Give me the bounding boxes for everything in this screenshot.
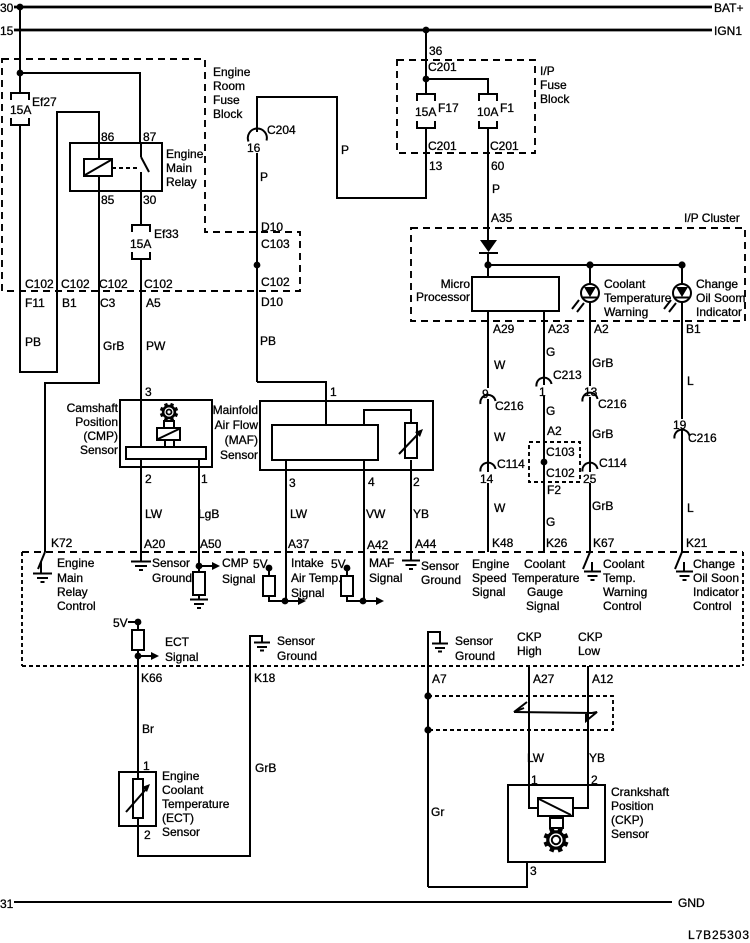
svg-text:2: 2 — [144, 828, 151, 842]
svg-text:Room: Room — [213, 79, 245, 93]
svg-text:19: 19 — [673, 418, 687, 432]
svg-text:Signal: Signal — [291, 586, 324, 600]
svg-text:PW: PW — [146, 339, 166, 353]
svg-text:Sensor: Sensor — [455, 634, 493, 648]
label I/P Fuse Block — [540, 64, 570, 106]
wire from rail 30 down to Ef27 — [19, 7, 21, 93]
svg-text:87: 87 — [143, 130, 157, 144]
svg-text:A29: A29 — [493, 322, 515, 336]
svg-text:A5: A5 — [146, 296, 161, 310]
svg-text:Ground: Ground — [421, 573, 461, 587]
label Sensor Ground — [152, 556, 192, 585]
svg-text:F17: F17 — [438, 101, 459, 115]
svg-text:Control: Control — [603, 599, 642, 613]
svg-text:Signal: Signal — [472, 585, 505, 599]
wire ECT pin 2 loop to K18 — [138, 666, 250, 856]
label CKP Low — [578, 630, 603, 658]
wire B1 to K21 — [681, 302, 683, 552]
wire bus to microprocessor — [487, 265, 489, 277]
svg-text:36: 36 — [429, 44, 443, 58]
svg-text:C102: C102 — [261, 275, 290, 289]
svg-text:Engine: Engine — [472, 557, 510, 571]
svg-text:Warning: Warning — [604, 305, 648, 319]
svg-text:D10: D10 — [261, 220, 283, 234]
svg-text:Signal: Signal — [369, 571, 402, 585]
svg-text:A7: A7 — [432, 672, 447, 686]
svg-text:L7B25303: L7B25303 — [688, 928, 749, 942]
svg-text:4: 4 — [368, 475, 375, 489]
svg-text:K72: K72 — [51, 536, 73, 550]
svg-text:Sensor: Sensor — [277, 634, 315, 648]
CKP gear icon — [544, 828, 567, 851]
svg-text:A2: A2 — [594, 322, 609, 336]
label Camshaft Position (CMP) Sensor — [67, 401, 119, 457]
fuse Ef33 15A — [130, 225, 179, 259]
svg-text:K67: K67 — [593, 536, 615, 550]
label Mainfold Air Flow (MAF) Sensor — [213, 403, 259, 462]
I/P Fuse Block dashed boundary — [397, 60, 535, 153]
svg-text:D10: D10 — [261, 295, 283, 309]
node C103/C102 junction — [541, 459, 548, 466]
wire branch to relay pin 87 — [20, 73, 140, 143]
pin 2 wire to A20 — [140, 459, 142, 561]
svg-text:BAT+: BAT+ — [714, 1, 743, 15]
svg-text:GrB: GrB — [103, 339, 124, 353]
svg-text:Sensor: Sensor — [80, 443, 118, 457]
svg-text:ECT: ECT — [165, 635, 190, 649]
svg-text:Fuse: Fuse — [540, 78, 567, 92]
svg-text:Block: Block — [213, 107, 243, 121]
svg-text:Coolant: Coolant — [603, 557, 645, 571]
ground A20 sensor ground — [131, 552, 151, 570]
node A42 junction and arrow — [360, 597, 384, 605]
connector C204 16 — [245, 123, 296, 155]
I/P Cluster dashed boundary — [411, 228, 745, 321]
svg-text:C103: C103 — [261, 237, 290, 251]
ground A7 sensor ground hook — [428, 632, 448, 666]
resistor MAF variable — [399, 423, 423, 458]
svg-text:5V: 5V — [113, 616, 128, 630]
svg-text:VW: VW — [366, 507, 386, 521]
connector C216 9 — [480, 387, 524, 413]
svg-text:Coolant: Coolant — [162, 783, 204, 797]
wire A2 to K67 — [589, 302, 591, 552]
svg-text:GND: GND — [678, 896, 705, 910]
svg-text:YB: YB — [589, 751, 605, 765]
label Engine Room Fuse Block — [213, 65, 251, 121]
svg-text:W: W — [494, 430, 506, 444]
CMP sensor element — [157, 421, 180, 447]
svg-text:Engine: Engine — [162, 769, 200, 783]
node shield bottom — [424, 726, 431, 733]
svg-text:A44: A44 — [415, 537, 437, 551]
svg-text:(ECT): (ECT) — [162, 811, 194, 825]
svg-text:C102: C102 — [546, 466, 575, 480]
twisted pair symbol — [514, 702, 597, 721]
svg-text:14: 14 — [480, 472, 494, 486]
rail GND 31 — [0, 896, 705, 911]
node on rail 30 — [17, 4, 24, 11]
sensor CMP box — [120, 400, 212, 467]
wire branch to fuse F1 — [426, 79, 488, 94]
relay switch pin 87 to 30 — [141, 143, 149, 191]
svg-text:Sensor: Sensor — [611, 827, 649, 841]
label MAF Signal — [369, 556, 402, 585]
A50 CMP signal node and arrow — [196, 562, 220, 570]
node on rail IGN1 — [423, 27, 430, 34]
pin 1 wire to A50 — [198, 459, 200, 572]
label Micro Processor — [416, 277, 470, 304]
ECM dashed boundary — [22, 552, 743, 666]
svg-text:CKP: CKP — [517, 630, 542, 644]
sensor ECT box — [119, 772, 156, 826]
svg-text:Signal: Signal — [222, 572, 255, 586]
svg-text:(MAF): (MAF) — [225, 433, 258, 447]
svg-text:A50: A50 — [200, 537, 222, 551]
CMP gear icon — [161, 404, 178, 421]
svg-text:Engine: Engine — [213, 65, 251, 79]
wire Ef33 down to CMP pin 3 — [140, 259, 142, 447]
svg-text:1: 1 — [539, 385, 546, 399]
svg-text:GrB: GrB — [592, 427, 613, 441]
svg-text:C204: C204 — [267, 123, 296, 137]
K21 switch to ground — [675, 552, 693, 580]
connector C216 19 — [672, 418, 717, 445]
svg-text:A37: A37 — [288, 537, 310, 551]
node shield top — [424, 692, 431, 699]
svg-text:Indicator: Indicator — [693, 585, 739, 599]
svg-text:G: G — [546, 515, 555, 529]
svg-text:W: W — [494, 358, 506, 372]
svg-text:Gr: Gr — [431, 805, 444, 819]
svg-text:15A: 15A — [415, 105, 436, 119]
svg-text:Coolant: Coolant — [524, 557, 566, 571]
svg-text:C3: C3 — [100, 296, 116, 310]
resistor A50 pulldown — [193, 572, 205, 599]
sensor MAF outer box — [260, 401, 433, 470]
svg-text:Intake: Intake — [291, 556, 324, 570]
svg-text:C102: C102 — [25, 277, 54, 291]
svg-text:Engine: Engine — [57, 556, 95, 570]
label Coolant Temp. Warning Control — [603, 557, 647, 613]
svg-text:W: W — [494, 501, 506, 515]
connector C103/C102 dashed box — [529, 442, 580, 482]
svg-text:13: 13 — [584, 385, 598, 399]
svg-text:Air Flow: Air Flow — [215, 418, 259, 432]
svg-text:P: P — [341, 143, 349, 157]
svg-text:85: 85 — [101, 193, 115, 207]
svg-text:Change: Change — [693, 557, 735, 571]
svg-text:C216: C216 — [495, 399, 524, 413]
connector C201 below F17 — [428, 139, 457, 173]
label Change Oil Soom Indicator — [696, 277, 745, 319]
svg-text:3: 3 — [530, 864, 537, 878]
svg-text:Indicator: Indicator — [696, 305, 742, 319]
svg-text:Gauge: Gauge — [527, 585, 563, 599]
wire MAF pin 3 to A37 — [285, 460, 287, 601]
diode — [479, 240, 498, 265]
5V pullup for A42 — [331, 557, 363, 601]
node bus left — [484, 261, 491, 268]
svg-text:5V: 5V — [253, 557, 268, 571]
svg-text:Fuse: Fuse — [213, 93, 240, 107]
svg-text:Warning: Warning — [603, 585, 647, 599]
svg-text:1: 1 — [330, 385, 337, 399]
ground A44 sensor ground — [402, 561, 420, 570]
svg-text:(CMP): (CMP) — [83, 429, 118, 443]
sensor CKP box — [508, 785, 605, 862]
svg-text:Main: Main — [166, 161, 192, 175]
svg-text:Block: Block — [540, 92, 570, 106]
svg-text:F2: F2 — [547, 483, 561, 497]
svg-text:Sensor: Sensor — [220, 448, 258, 462]
connector C114 25 — [582, 456, 627, 486]
wire CKP pin 3 to ground wire — [428, 862, 527, 887]
label ECT Signal — [165, 635, 198, 664]
svg-text:GrB: GrB — [255, 761, 276, 775]
relay actuator dashed link — [112, 167, 139, 169]
wire F17 to C204 path — [257, 97, 426, 198]
svg-text:C102: C102 — [99, 277, 128, 291]
label Engine Main Relay Control — [57, 556, 96, 613]
svg-text:K18: K18 — [254, 671, 276, 685]
svg-text:Ground: Ground — [152, 571, 192, 585]
micro processor box U1 — [472, 277, 559, 311]
wire relay pin 85 to K72 jog — [45, 191, 99, 552]
5V pullup for A37 — [253, 557, 285, 601]
wire D10 to MAF pin 1 — [257, 382, 326, 425]
rail 30 BAT+ — [0, 1, 743, 15]
connector C201 below F1 — [490, 139, 519, 173]
svg-text:3: 3 — [289, 476, 296, 490]
svg-text:Sensor: Sensor — [152, 556, 190, 570]
label Engine Coolant Temperature (ECT) Sensor — [162, 769, 230, 839]
label Coolant Temperature Warning — [604, 277, 672, 319]
svg-text:C102: C102 — [144, 277, 173, 291]
svg-text:LW: LW — [290, 507, 308, 521]
svg-text:Temperature: Temperature — [512, 571, 580, 585]
relay Engine Main Relay box — [70, 143, 162, 191]
svg-text:P: P — [492, 182, 500, 196]
node C201 split — [423, 76, 430, 83]
connector C102 A5 — [144, 277, 173, 310]
svg-text:Change: Change — [696, 277, 738, 291]
svg-text:Signal: Signal — [165, 650, 198, 664]
svg-text:High: High — [517, 644, 542, 658]
wire F1 down to cluster — [487, 128, 489, 240]
node ECT signal junction and arrow — [135, 652, 159, 660]
K67 switch to ground — [583, 552, 601, 580]
svg-text:CKP: CKP — [578, 630, 603, 644]
CKP shield dashed box — [428, 696, 613, 730]
svg-text:Ground: Ground — [455, 649, 495, 663]
LED coolant temperature warning — [572, 265, 599, 312]
label CMP Signal — [222, 556, 255, 586]
svg-text:A20: A20 — [144, 537, 166, 551]
svg-text:1: 1 — [143, 759, 150, 773]
svg-text:Ef33: Ef33 — [154, 227, 179, 241]
K72 switch to ground — [33, 552, 52, 582]
svg-text:A2: A2 — [547, 424, 562, 438]
svg-text:LgB: LgB — [198, 507, 219, 521]
svg-text:C201: C201 — [428, 60, 457, 74]
svg-text:86: 86 — [101, 130, 115, 144]
svg-text:Crankshaft: Crankshaft — [611, 785, 670, 799]
svg-text:Processor: Processor — [416, 290, 470, 304]
svg-text:Temp.: Temp. — [603, 571, 636, 585]
connector C114 14 — [479, 457, 525, 486]
label Sensor Ground A44 — [421, 559, 461, 587]
svg-text:C201: C201 — [490, 139, 519, 153]
svg-text:GrB: GrB — [592, 499, 613, 513]
label CKP High — [517, 630, 542, 658]
svg-text:Ef27: Ef27 — [32, 95, 57, 109]
rail 15 IGN1 — [0, 24, 742, 38]
svg-text:Camshaft: Camshaft — [67, 401, 119, 415]
svg-text:K21: K21 — [686, 536, 708, 550]
svg-text:I/P: I/P — [540, 64, 555, 78]
svg-text:2: 2 — [145, 472, 152, 486]
svg-text:P: P — [260, 170, 268, 184]
connector D10 C103 — [261, 220, 290, 251]
svg-text:Temperature: Temperature — [604, 291, 672, 305]
svg-text:A35: A35 — [491, 211, 513, 225]
svg-text:2: 2 — [413, 475, 420, 489]
svg-text:Control: Control — [693, 599, 732, 613]
connector C213 1 — [536, 368, 582, 399]
node junction Ef27/relay branch — [17, 70, 24, 77]
node C103 junction — [254, 262, 261, 269]
svg-text:LW: LW — [145, 507, 163, 521]
svg-text:15: 15 — [0, 24, 14, 38]
svg-text:Mainfold: Mainfold — [213, 403, 258, 417]
svg-text:F1: F1 — [500, 101, 514, 115]
connector C102 D10 — [261, 275, 290, 309]
svg-text:C114: C114 — [599, 456, 627, 470]
svg-text:16: 16 — [247, 141, 261, 155]
svg-text:25: 25 — [583, 472, 597, 486]
MAF inner element box — [272, 425, 378, 460]
wire resistor link to element — [364, 410, 411, 425]
svg-text:G: G — [546, 345, 555, 359]
svg-text:L: L — [687, 501, 694, 515]
svg-text:C216: C216 — [598, 397, 627, 411]
svg-text:15A: 15A — [130, 237, 151, 251]
label Engine Speed Signal K48 — [472, 557, 510, 599]
svg-text:13: 13 — [429, 159, 443, 173]
svg-text:Sensor: Sensor — [421, 559, 459, 573]
fuse F1 10A — [477, 94, 514, 128]
svg-text:LW: LW — [527, 751, 545, 765]
svg-text:Ground: Ground — [277, 649, 317, 663]
label Sensor Ground A7 — [455, 634, 495, 663]
ground below A50 resistor — [190, 600, 208, 609]
svg-text:10A: 10A — [477, 105, 498, 119]
label Coolant Temperature Gauge Signal K26 — [512, 557, 580, 613]
svg-text:Relay: Relay — [57, 585, 88, 599]
svg-text:(CKP): (CKP) — [611, 813, 644, 827]
label Sensor Ground K18 — [277, 634, 317, 663]
relay coil — [84, 143, 112, 191]
wire A29 to K48 — [487, 311, 489, 552]
wire A23 to K26 — [543, 311, 545, 552]
relay label — [166, 147, 204, 189]
svg-text:L: L — [687, 374, 694, 388]
wire C204 down D10 — [256, 153, 258, 382]
connector C102 F11 — [25, 277, 54, 310]
fuse F17 15A — [415, 94, 459, 128]
svg-text:IGN1: IGN1 — [714, 24, 742, 38]
wire K66 down from resistor — [137, 650, 139, 779]
svg-text:Sensor: Sensor — [162, 825, 200, 839]
svg-text:A27: A27 — [533, 672, 555, 686]
svg-text:PB: PB — [25, 335, 41, 349]
svg-text:A12: A12 — [592, 672, 614, 686]
svg-text:Low: Low — [578, 644, 600, 658]
svg-text:I/P Cluster: I/P Cluster — [684, 211, 740, 225]
5V pullup ECT — [113, 616, 144, 650]
wire MAF pin 4 to A42 — [363, 460, 365, 601]
LED change oil soon indicator — [664, 265, 691, 312]
wire relay pin 30 to fuse Ef33 — [140, 191, 142, 225]
ground K18 sensor ground hook — [250, 636, 270, 666]
svg-text:Engine: Engine — [166, 147, 204, 161]
svg-text:A42: A42 — [367, 538, 389, 552]
svg-text:C114: C114 — [497, 457, 525, 471]
svg-text:C216: C216 — [688, 431, 717, 445]
svg-text:MAF: MAF — [369, 556, 394, 570]
fuse Ef27 15A — [10, 93, 57, 125]
svg-text:5V: 5V — [331, 557, 346, 571]
wire MAF pin 2 to A44 — [410, 460, 412, 560]
svg-text:Br: Br — [142, 722, 154, 736]
wire Ef27 down through C102 F11 loop to relay coil feed — [20, 112, 99, 372]
wire A27 to CKP pin 1 — [529, 666, 538, 808]
svg-text:C213: C213 — [553, 368, 582, 382]
svg-text:K26: K26 — [546, 536, 568, 550]
svg-text:31: 31 — [0, 897, 14, 911]
svg-text:YB: YB — [413, 507, 429, 521]
svg-text:1: 1 — [201, 472, 208, 486]
svg-text:30: 30 — [0, 1, 14, 15]
wire A12 to CKP pin 2 — [573, 666, 588, 808]
connector C102 C3 — [99, 277, 128, 310]
CMP base bar — [126, 447, 206, 459]
svg-text:C201: C201 — [428, 139, 457, 153]
svg-text:15A: 15A — [10, 103, 31, 117]
svg-text:9: 9 — [482, 387, 489, 401]
svg-text:Main: Main — [57, 571, 83, 585]
svg-text:Position: Position — [611, 799, 654, 813]
svg-text:C102: C102 — [61, 277, 90, 291]
label Intake Air Temp. Signal — [291, 556, 341, 600]
svg-text:CMP: CMP — [222, 556, 249, 570]
svg-text:Position: Position — [75, 415, 118, 429]
connector C216 13 — [582, 385, 627, 411]
label Crankshaft Position (CKP) Sensor — [611, 785, 670, 841]
svg-text:Oil Soon: Oil Soon — [693, 571, 739, 585]
svg-text:B1: B1 — [62, 296, 77, 310]
svg-text:C103: C103 — [546, 445, 575, 459]
svg-text:K66: K66 — [141, 671, 163, 685]
svg-text:F11: F11 — [25, 296, 45, 310]
Engine Room Fuse Block dashed boundary — [2, 59, 300, 291]
svg-text:PB: PB — [260, 334, 276, 348]
svg-text:Signal: Signal — [526, 599, 559, 613]
CKP sensor element — [538, 798, 573, 828]
svg-text:A23: A23 — [548, 322, 570, 336]
connector C102 B1 — [61, 277, 90, 310]
